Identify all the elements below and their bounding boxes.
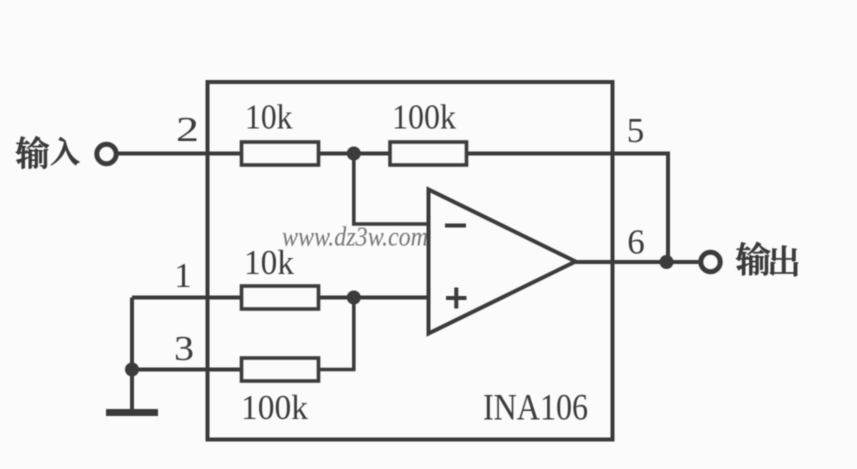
plus sign non-inverting input	[446, 288, 467, 309]
resistor R4 100k (pin 3)	[242, 358, 319, 381]
label output chinese chu	[770, 246, 798, 277]
node junction plus input	[347, 291, 361, 305]
wire R3 to op-amp plus input	[319, 296, 429, 300]
svg-text:1: 1	[174, 256, 192, 295]
svg-text:www.dz3w.com: www.dz3w.com	[282, 222, 428, 252]
svg-text:3: 3	[174, 329, 194, 368]
label input chinese shu	[16, 136, 49, 168]
wire R1 to R2	[319, 152, 391, 156]
svg-text:100k: 100k	[241, 388, 308, 427]
label output chinese shu	[736, 242, 770, 275]
op-amp U1 triangle	[429, 190, 576, 334]
ground	[106, 370, 158, 413]
svg-text:INA106: INA106	[483, 388, 588, 429]
svg-text:10k: 10k	[245, 98, 293, 137]
label input chinese ru	[51, 137, 80, 165]
svg-text:6: 6	[627, 223, 645, 262]
IC boundary box INA106	[208, 82, 613, 440]
wire op-amp output to terminal	[576, 260, 701, 264]
resistor R2 100k feedback	[390, 142, 467, 165]
wire pin 1 to R3	[132, 296, 242, 300]
node junction pin 3 left	[125, 363, 139, 377]
input terminal circle	[97, 144, 116, 163]
wire feedback tap to op-amp inverting input	[354, 154, 429, 225]
node junction output pin 6	[660, 255, 674, 269]
minus sign inverting input	[445, 224, 466, 228]
svg-text:5: 5	[627, 111, 645, 150]
wire left vertical pin1 to pin3	[130, 298, 134, 370]
svg-text:100k: 100k	[392, 98, 456, 137]
svg-text:2: 2	[176, 110, 199, 149]
resistor R3 10k (pin 1)	[242, 286, 319, 309]
output terminal circle	[701, 252, 720, 271]
wire R4 up to plus node	[319, 298, 354, 370]
wire R2 to pin5 corner down to output node	[467, 154, 669, 263]
node junction after R1	[347, 147, 361, 161]
wire input to R1	[117, 152, 242, 156]
wire pin 3 to R4	[132, 368, 242, 372]
resistor R1 10k (pin 2)	[242, 142, 319, 165]
